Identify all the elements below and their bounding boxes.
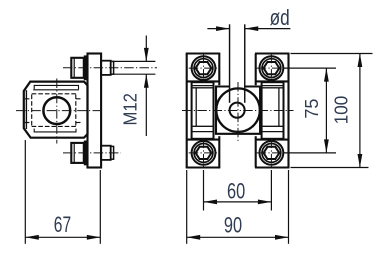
svg-text:ød: ød [270,5,290,30]
svg-text:100: 100 [331,96,351,125]
svg-text:90: 90 [224,212,242,237]
svg-text:60: 60 [227,178,245,203]
svg-text:67: 67 [54,212,71,237]
svg-text:M12: M12 [121,93,141,125]
svg-text:75: 75 [302,99,322,119]
